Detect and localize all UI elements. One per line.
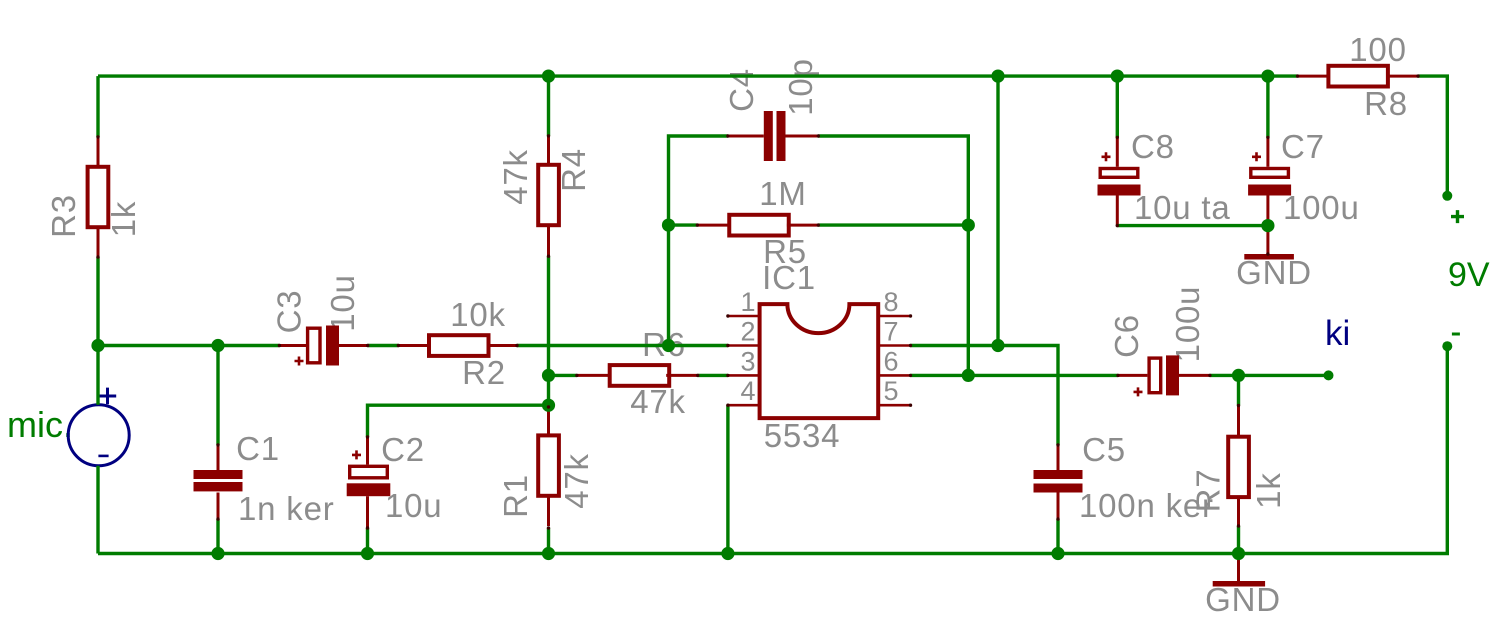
- ground symbol bottom (R7): [1213, 554, 1265, 587]
- pin 2 stub: [728, 344, 759, 347]
- svg-text:ki: ki: [1325, 314, 1350, 353]
- pin 6 stub: [879, 374, 911, 377]
- op-amp IC1 body 5534: [760, 304, 879, 418]
- svg-text:3: 3: [740, 346, 755, 376]
- battery plus sign: [1451, 210, 1464, 223]
- pin 7 stub: [879, 344, 911, 347]
- pin 5 stub: [879, 404, 911, 407]
- capacitor C5: [1034, 470, 1083, 493]
- pin number 1: [740, 287, 755, 317]
- junction C5 bottom: [1051, 547, 1064, 560]
- svg-text:C3: C3: [271, 290, 308, 334]
- pin number 4: [740, 376, 755, 406]
- junction C8-C7 gnd link: [1261, 219, 1274, 232]
- label C4 name: [723, 68, 760, 112]
- wire left rail lower: [96, 466, 99, 554]
- junction C2 bottom: [361, 547, 374, 560]
- label R1 name: [497, 474, 534, 518]
- label GND top: [1236, 254, 1312, 291]
- svg-text:C5: C5: [1082, 431, 1126, 468]
- resistor R2: [398, 335, 517, 356]
- junction C8 top: [1111, 70, 1124, 83]
- pin 1 stub: [728, 315, 759, 318]
- mic minus: [98, 455, 108, 458]
- resistor R5: [697, 215, 818, 236]
- wire left rail mid: [96, 257, 99, 405]
- capacitor C7 polarized: [1248, 137, 1291, 254]
- wire supply vertical to pin7: [996, 76, 999, 345]
- svg-text:C2: C2: [381, 431, 425, 468]
- wire top rail: [98, 74, 1298, 77]
- pin number 5: [884, 376, 899, 406]
- COMPONENTS (dark red): [88, 66, 1418, 587]
- label C3 name: [271, 290, 308, 334]
- junction R5 left: [662, 219, 675, 232]
- wire C3 to R2: [368, 344, 399, 347]
- svg-text:R3: R3: [45, 194, 82, 238]
- wire R5 left: [669, 223, 698, 226]
- label C4 value 10p: [782, 58, 819, 115]
- wire R8 right to battery plus: [1418, 76, 1447, 196]
- label C5 value 100n ker: [1079, 487, 1214, 524]
- mic circle: [68, 405, 129, 466]
- label C6 value 100u: [1169, 286, 1206, 363]
- wire pin4 down: [726, 405, 729, 553]
- capacitor C6 polarized: [1118, 355, 1210, 396]
- label C7 name: [1281, 128, 1325, 165]
- label R4 name: [555, 148, 592, 192]
- node ki output end: [1324, 370, 1334, 380]
- label R5 name: [763, 233, 807, 270]
- junction R1 top node: [542, 399, 555, 412]
- svg-text:10u: 10u: [385, 487, 442, 524]
- junction pin2 node: [662, 339, 675, 352]
- capacitor C3 polarized: [279, 326, 367, 366]
- junction pin4 bottom: [721, 547, 734, 560]
- svg-text:9V: 9V: [1448, 256, 1490, 294]
- wire R4 to R6 node: [547, 256, 550, 407]
- wire R6 to pin3: [698, 374, 728, 377]
- WIRES (green): [98, 76, 1447, 553]
- label C1 value 1n ker: [238, 490, 335, 527]
- svg-text:R8: R8: [1364, 85, 1408, 122]
- svg-text:R1: R1: [497, 474, 534, 518]
- wire C8 top: [1116, 76, 1119, 137]
- label C7 value 100u: [1283, 189, 1360, 226]
- svg-text:47k: 47k: [497, 149, 534, 205]
- svg-text:R2: R2: [462, 354, 506, 391]
- label R2 value 10k: [450, 296, 506, 333]
- svg-text:10u ta: 10u ta: [1134, 189, 1231, 226]
- label mic: [7, 404, 73, 445]
- wire C1 branch: [216, 346, 219, 446]
- mic source symbol: [68, 388, 129, 466]
- junction R7 top: [1232, 369, 1245, 382]
- pin 4 stub: [728, 404, 759, 407]
- pin 3 stub: [728, 374, 759, 377]
- capacitor C1: [194, 470, 243, 491]
- mic plus: [99, 388, 117, 405]
- svg-text:100u: 100u: [1283, 189, 1360, 226]
- svg-text:8: 8: [884, 287, 899, 317]
- svg-text:1k: 1k: [105, 201, 142, 237]
- label R1 value 47k: [558, 453, 595, 509]
- junction R5 right: [962, 219, 975, 232]
- wire C2 to rail: [366, 528, 369, 554]
- svg-text:10p: 10p: [782, 58, 819, 115]
- svg-text:GND: GND: [1205, 581, 1281, 618]
- label R3 value 1k: [105, 201, 142, 237]
- wire R5 right: [818, 223, 968, 226]
- wire R6 left: [549, 374, 577, 377]
- svg-text:IC1: IC1: [762, 259, 816, 296]
- wire C7 top: [1266, 76, 1269, 137]
- svg-text:100n ker: 100n ker: [1079, 487, 1214, 524]
- capacitor C4: [764, 111, 786, 161]
- wire C1 to rail: [216, 519, 219, 554]
- resistor R3: [88, 137, 109, 257]
- svg-text:mic.: mic.: [7, 404, 73, 445]
- junction R1 bottom: [542, 547, 555, 560]
- wire R2 to pin2: [517, 344, 728, 347]
- pin number 6: [884, 346, 899, 376]
- label 9V: [1448, 256, 1490, 294]
- pin number 2: [740, 317, 755, 347]
- pin number 8: [884, 287, 899, 317]
- label C8 name: [1131, 128, 1175, 165]
- label C8 value 10u ta: [1134, 189, 1231, 226]
- label R6 value 47k: [630, 383, 686, 420]
- junction R4 top: [542, 70, 555, 83]
- wire C6 to output: [1210, 374, 1329, 377]
- label R8 name: [1364, 85, 1408, 122]
- label IC1 name: [762, 259, 816, 296]
- capacitor C2 polarized: [347, 435, 391, 528]
- node battery plus end: [1442, 191, 1452, 201]
- label R6 name: [642, 326, 686, 363]
- svg-text:10k: 10k: [450, 296, 506, 333]
- svg-text:5: 5: [884, 376, 899, 406]
- label C1 name: [236, 430, 280, 467]
- wire pin6 to C6: [911, 374, 1119, 377]
- svg-text:5534: 5534: [764, 417, 841, 454]
- wire C5 to rail: [1056, 519, 1059, 554]
- svg-text:100u: 100u: [1169, 286, 1206, 363]
- wire C4 right to feedback node: [818, 136, 968, 375]
- svg-text:4: 4: [740, 376, 755, 406]
- label R3 name: [45, 194, 82, 238]
- junction R7 bottom: [1232, 547, 1245, 560]
- wire C2 top to R1 node: [368, 405, 549, 437]
- wire bottom rail: [98, 346, 1447, 553]
- label C3 value 10u: [324, 274, 361, 331]
- wire R7 to rail: [1237, 526, 1240, 554]
- label C2 value 10u: [385, 487, 442, 524]
- label R8 value 100: [1349, 31, 1406, 68]
- junction C7 top: [1261, 70, 1274, 83]
- wire R1 to rail: [547, 528, 550, 554]
- svg-text:C8: C8: [1131, 128, 1175, 165]
- svg-text:47k: 47k: [558, 453, 595, 509]
- wire left rail upper: [96, 76, 99, 137]
- svg-text:1k: 1k: [1250, 472, 1287, 508]
- pin number 3: [740, 346, 755, 376]
- svg-text:1: 1: [740, 287, 755, 317]
- svg-text:GND: GND: [1236, 254, 1312, 291]
- battery minus sign: [1452, 333, 1460, 336]
- pin number 7: [884, 317, 899, 347]
- resistor R8: [1298, 66, 1418, 87]
- label C6 name: [1108, 314, 1145, 358]
- junction C1 top: [211, 339, 224, 352]
- junction supply top: [991, 70, 1004, 83]
- ground symbol top (C7): [1244, 254, 1294, 260]
- svg-text:C6: C6: [1108, 314, 1145, 358]
- label C2 name: [381, 431, 425, 468]
- pin connection points: [96, 74, 1419, 529]
- svg-text:1M: 1M: [759, 175, 806, 212]
- resistor R4: [538, 136, 559, 256]
- svg-text:10u: 10u: [324, 274, 361, 331]
- capacitor C8 polarized: [1098, 137, 1141, 225]
- wire feedback left vertical: [669, 136, 728, 346]
- label R5 value 1M: [759, 175, 806, 212]
- node battery minus end: [1442, 341, 1452, 351]
- svg-text:100: 100: [1349, 31, 1406, 68]
- wire C8 bottom link: [1117, 224, 1268, 227]
- wire input line: [98, 344, 279, 347]
- svg-text:C1: C1: [236, 430, 280, 467]
- junction pin6 node: [962, 369, 975, 382]
- pin 8 stub: [879, 315, 911, 318]
- label GND bottom: [1205, 581, 1281, 618]
- wire R7 branch: [1237, 375, 1240, 405]
- junction R6 node: [542, 369, 555, 382]
- junction mic node: [91, 339, 104, 352]
- label R7 value 1k: [1250, 472, 1287, 508]
- svg-text:47k: 47k: [630, 383, 686, 420]
- svg-text:2: 2: [740, 317, 755, 347]
- label R4 value 47k: [497, 149, 534, 205]
- resistor R6: [577, 365, 698, 386]
- label R2 name: [462, 354, 506, 391]
- label ki: [1325, 314, 1350, 353]
- svg-text:1n ker: 1n ker: [238, 490, 335, 527]
- svg-text:C7: C7: [1281, 128, 1325, 165]
- junction pin7 node: [991, 339, 1004, 352]
- resistor R7: [1228, 406, 1249, 527]
- label IC1 value 5534: [764, 417, 841, 454]
- svg-text:7: 7: [884, 317, 899, 347]
- junction C1 bottom: [211, 547, 224, 560]
- resistor R1: [538, 407, 559, 526]
- wire R4 vertical: [547, 76, 550, 136]
- label C5 name: [1082, 431, 1126, 468]
- label R7 name: [1190, 469, 1227, 513]
- wire pin7 to C5: [911, 346, 1059, 446]
- svg-text:6: 6: [884, 346, 899, 376]
